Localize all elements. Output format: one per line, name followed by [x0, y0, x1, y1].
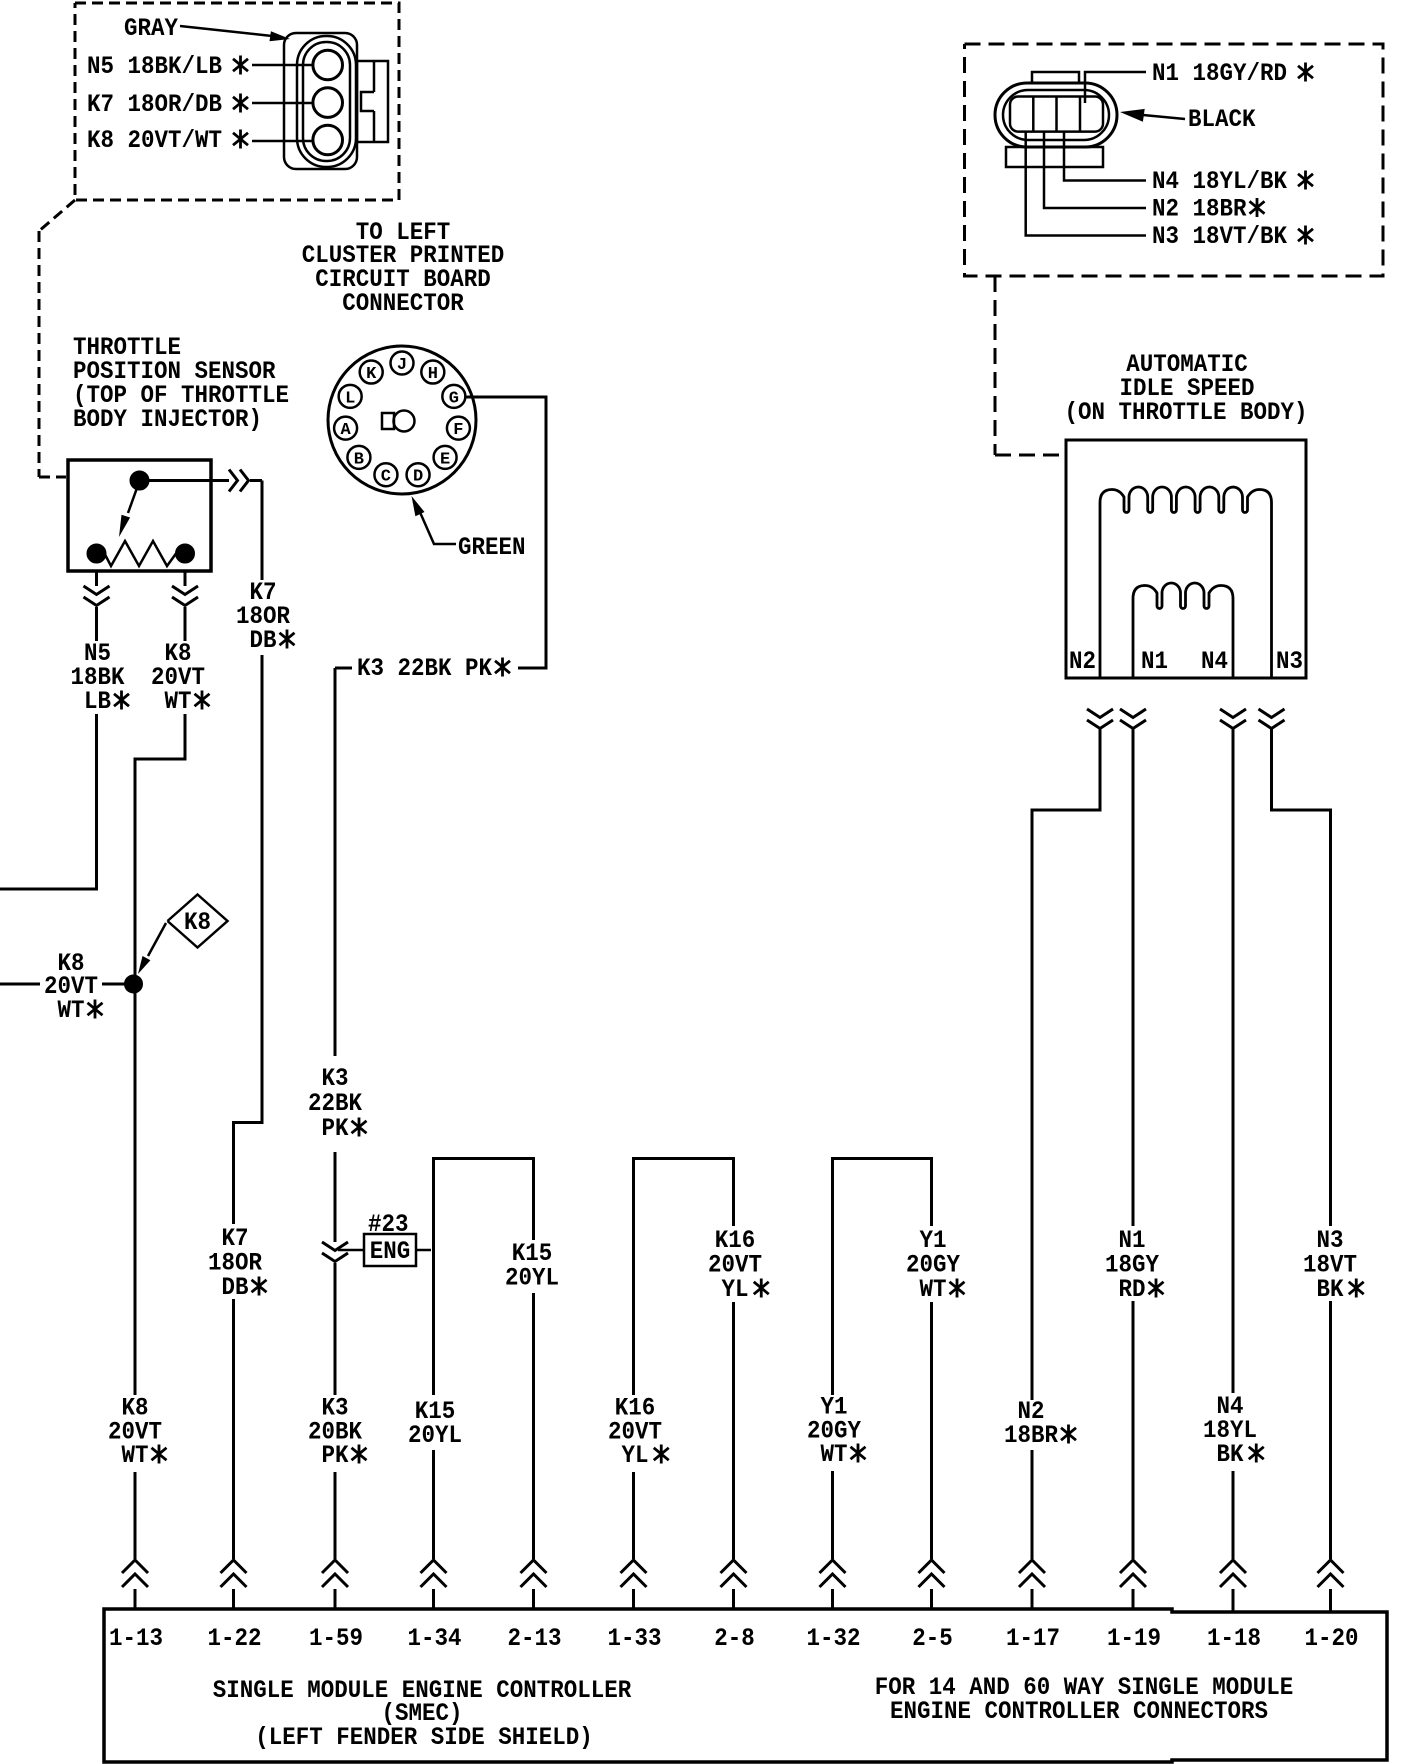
svg-text:18BR: 18BR: [1004, 1422, 1059, 1451]
svg-text:N3 18VT/BK: N3 18VT/BK: [1152, 223, 1288, 252]
svg-text:WT: WT: [164, 688, 191, 717]
svg-text:BK: BK: [1216, 1441, 1244, 1470]
svg-text:DB: DB: [221, 1274, 248, 1303]
svg-text:K: K: [366, 365, 377, 384]
svg-text:2-5: 2-5: [912, 1625, 953, 1654]
svg-text:GREEN: GREEN: [458, 534, 525, 563]
svg-text:ENGINE CONTROLLER CONNECTORS: ENGINE CONTROLLER CONNECTORS: [890, 1698, 1268, 1727]
svg-text:1-22: 1-22: [208, 1625, 262, 1654]
svg-text:1-13: 1-13: [109, 1625, 163, 1654]
svg-text:N2 18BR: N2 18BR: [1152, 195, 1247, 224]
svg-text:G: G: [449, 389, 459, 408]
svg-text:WT: WT: [121, 1442, 148, 1471]
svg-text:#23: #23: [368, 1211, 409, 1240]
svg-text:WT: WT: [820, 1441, 847, 1470]
svg-text:LB: LB: [84, 688, 111, 717]
svg-text:1-59: 1-59: [309, 1625, 363, 1654]
svg-text:J: J: [397, 356, 407, 375]
svg-text:DB: DB: [249, 627, 276, 656]
svg-text:K8: K8: [184, 909, 211, 938]
svg-text:1-33: 1-33: [608, 1625, 662, 1654]
svg-text:20YL: 20YL: [408, 1422, 462, 1451]
svg-text:PK: PK: [321, 1442, 349, 1471]
svg-text:(LEFT FENDER SIDE SHIELD): (LEFT FENDER SIDE SHIELD): [255, 1724, 592, 1753]
svg-text:E: E: [440, 450, 450, 469]
svg-text:C: C: [381, 468, 391, 487]
svg-text:CONNECTOR: CONNECTOR: [342, 290, 464, 319]
svg-text:BK: BK: [1316, 1276, 1344, 1305]
svg-text:YL: YL: [721, 1276, 748, 1305]
svg-text:L: L: [345, 389, 355, 408]
svg-text:YL: YL: [621, 1442, 648, 1471]
svg-text:RD: RD: [1118, 1276, 1145, 1305]
svg-text:B: B: [354, 450, 364, 469]
svg-text:N1 18GY/RD: N1 18GY/RD: [1152, 60, 1287, 89]
svg-text:H: H: [428, 365, 438, 384]
svg-text:1-17: 1-17: [1006, 1625, 1060, 1654]
svg-text:N4: N4: [1201, 648, 1228, 677]
svg-text:20YL: 20YL: [505, 1264, 559, 1293]
svg-text:2-8: 2-8: [714, 1625, 755, 1654]
svg-text:2-13: 2-13: [508, 1625, 562, 1654]
svg-text:WT: WT: [919, 1276, 946, 1305]
svg-text:1-32: 1-32: [807, 1625, 861, 1654]
svg-text:BLACK: BLACK: [1188, 106, 1256, 135]
svg-text:K7 18OR/DB: K7 18OR/DB: [87, 91, 222, 120]
svg-text:N5 18BK/LB: N5 18BK/LB: [87, 53, 222, 82]
svg-text:PK: PK: [321, 1115, 349, 1144]
svg-text:A: A: [340, 421, 351, 440]
svg-text:BODY INJECTOR): BODY INJECTOR): [73, 406, 262, 435]
svg-text:1-34: 1-34: [408, 1625, 462, 1654]
svg-text:1-20: 1-20: [1305, 1625, 1359, 1654]
svg-text:N3: N3: [1276, 648, 1303, 677]
svg-text:N1: N1: [1141, 648, 1168, 677]
svg-text:F: F: [453, 421, 463, 440]
svg-text:1-19: 1-19: [1107, 1625, 1161, 1654]
svg-text:(ON THROTTLE BODY): (ON THROTTLE BODY): [1065, 399, 1308, 428]
svg-text:K3 22BK PK: K3 22BK PK: [357, 655, 493, 684]
svg-text:ENG: ENG: [370, 1238, 411, 1267]
svg-text:K8 20VT/WT: K8 20VT/WT: [87, 127, 222, 156]
svg-text:GRAY: GRAY: [124, 15, 179, 44]
svg-text:D: D: [413, 468, 423, 487]
svg-text:1-18: 1-18: [1207, 1625, 1261, 1654]
svg-text:WT: WT: [57, 997, 84, 1026]
svg-text:N2: N2: [1069, 648, 1096, 677]
svg-text:N4 18YL/BK: N4 18YL/BK: [1152, 168, 1288, 197]
